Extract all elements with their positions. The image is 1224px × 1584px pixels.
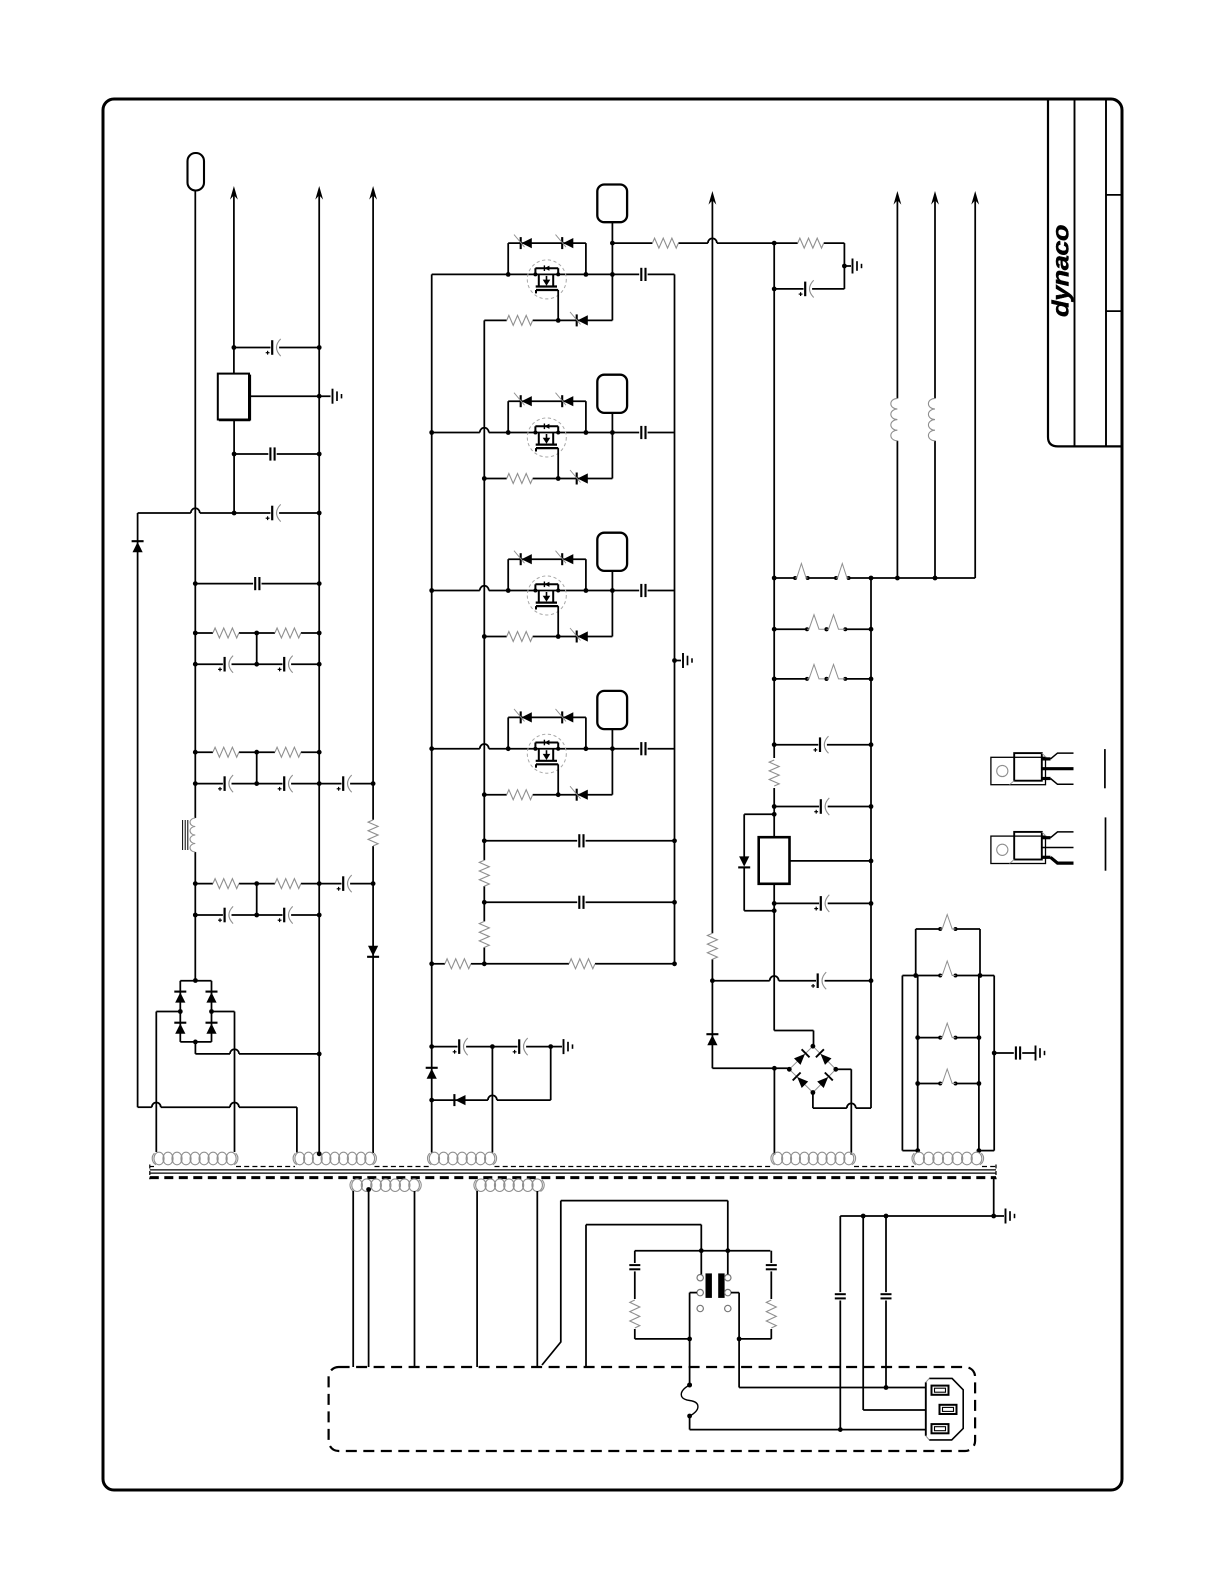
fusible resistor RF7	[938, 915, 957, 932]
node row stage 2	[429, 428, 614, 435]
wire rail E (x431.7)	[431, 274, 433, 1152]
fusible resistor RF6	[825, 664, 848, 681]
transistor Q3	[527, 576, 566, 615]
fusible resistor RF5	[805, 664, 829, 681]
resistor R1 on rail D	[368, 820, 378, 846]
zener Z3b	[556, 551, 574, 566]
fusible resistor row top	[772, 576, 975, 581]
wire BR1 bottom out	[195, 1042, 321, 1056]
winding W5	[912, 1152, 984, 1165]
node row stage 3	[429, 586, 614, 593]
resistor R17	[766, 1300, 776, 1328]
wire neutral riser	[863, 1216, 926, 1410]
capacitor C8	[254, 775, 319, 792]
resistor R15 on rail I	[769, 760, 779, 786]
diode D7 on rail E	[426, 1068, 438, 1079]
inductor L2 rail	[891, 199, 898, 578]
source row stage 3	[482, 634, 613, 639]
wire riser x550.7	[550, 1047, 552, 1101]
resistor R8 on rail F	[479, 860, 489, 886]
fuse F1	[188, 153, 205, 191]
transistor package TO-220 A	[991, 753, 1074, 785]
zener Z3a	[514, 551, 532, 566]
diode D2 on left drop	[132, 541, 144, 552]
wire Q3 can lead	[611, 571, 613, 637]
fusible resistor row 3	[772, 677, 874, 682]
heatsink bar B	[1105, 817, 1107, 870]
regulator ground row	[249, 394, 331, 399]
fusible row 4	[915, 1081, 981, 1086]
wire WA lead 1	[352, 1191, 354, 1367]
wire left drop (x137)	[137, 513, 139, 1107]
arrow output V4	[709, 191, 717, 205]
fusible resistor RF3	[805, 615, 829, 632]
capacitor C39 row	[710, 972, 873, 989]
power inlet J1 outline	[926, 1378, 963, 1440]
resistor R13 on rail H	[707, 933, 717, 959]
resistor R34 source	[507, 790, 533, 800]
capacitor C10	[319, 875, 375, 892]
protection bracket	[744, 812, 776, 913]
interlock connector P1	[690, 1251, 740, 1312]
zener Z1c source	[570, 312, 588, 327]
inlet pin 3	[932, 1424, 949, 1433]
node tap row	[610, 238, 777, 245]
diode D12	[816, 1049, 832, 1065]
resistor R10	[652, 238, 678, 248]
capacitor C24 drain	[612, 742, 674, 755]
capacitor C5	[193, 656, 257, 673]
wire rail K (x871)	[870, 578, 872, 1108]
capacitor C36 row	[772, 736, 874, 753]
ground G3	[551, 1039, 573, 1054]
capacitor C2 row	[232, 447, 322, 460]
package outline Q3 can	[597, 533, 627, 571]
arrow output V2	[315, 186, 323, 200]
capacitor C6	[254, 656, 321, 673]
wire cap branch x886	[885, 1216, 887, 1388]
wire inner right (x978.9)	[977, 976, 982, 1154]
wire rail I (x774.2)	[773, 243, 775, 1030]
wire outer left (x902.4)	[902, 976, 917, 1151]
wire AC return row	[138, 1102, 297, 1152]
regulator U1	[218, 374, 250, 421]
resistor R6	[195, 879, 256, 889]
heatsink bar A	[1104, 749, 1106, 788]
package outline Q1 can	[597, 185, 627, 223]
wire rail B (x234) upper	[233, 194, 235, 374]
wire WA tap lead	[368, 1190, 370, 1368]
resistor R5	[193, 747, 322, 757]
resistor R11	[432, 959, 485, 969]
wire Q3 source lead	[557, 606, 559, 636]
svg-text:dynaco: dynaco	[1048, 225, 1074, 317]
wire rail G (x674.5 cap rail)	[674, 274, 676, 962]
title block outline	[1048, 100, 1123, 447]
diode D4	[174, 1023, 186, 1034]
ground G1	[333, 389, 342, 404]
wire mid stub 3	[256, 884, 258, 915]
wire Q4 source lead	[557, 764, 559, 794]
wire Q1 can lead	[611, 222, 613, 243]
wire Q1 source lead	[557, 290, 559, 320]
wire BR2 right node	[836, 1069, 852, 1154]
wire interlock top row	[635, 1248, 771, 1253]
transistor Q2	[527, 418, 566, 457]
zobel right drop	[842, 243, 847, 289]
zener pair Z1a Z1b row	[508, 243, 586, 274]
wire Q4 can lead	[611, 729, 613, 795]
resistor R9 on rail F	[479, 921, 489, 947]
thermistor loop 2	[902, 973, 994, 978]
dynaco logo	[1048, 225, 1074, 317]
resistor R32 source	[507, 474, 533, 484]
wire bottom right seg	[737, 1337, 772, 1342]
wire mid stub 1	[256, 633, 258, 664]
source row stage 2	[482, 476, 613, 481]
wire WB lead 1	[476, 1191, 478, 1367]
capacitor C41 branch	[629, 1251, 640, 1339]
zener Z2a	[514, 393, 532, 408]
resistor R2	[195, 628, 256, 638]
fusible row 3	[915, 1035, 981, 1040]
capacitor C31 row	[482, 834, 677, 847]
capacitor C44	[881, 1292, 892, 1300]
fusible resistor RF9	[938, 1023, 957, 1040]
resistor R12	[429, 959, 677, 969]
wire BR1 right AC	[212, 1012, 235, 1153]
wire rail D (x373)	[372, 194, 374, 1153]
wire BR1 left AC	[156, 1012, 180, 1153]
wire drop x586	[585, 1225, 587, 1367]
wire bottom left seg	[635, 1337, 692, 1342]
capacitor C35 row	[772, 280, 845, 297]
wire earth row	[840, 1214, 996, 1219]
bridge BR2 frame	[787, 1044, 838, 1095]
diode D5	[206, 992, 218, 1003]
zener Z2c source	[570, 470, 588, 485]
resistor R3	[193, 628, 322, 638]
source row stage 1	[484, 318, 612, 323]
wire rail C (x319)	[318, 194, 320, 1154]
ground G2 on rail G	[672, 653, 692, 668]
wire Q2 source lead	[557, 448, 559, 478]
wire drop x560.8	[542, 1201, 561, 1365]
bridge BR1 frame	[178, 978, 214, 1044]
capacitor C37 row	[772, 798, 874, 815]
resistor R14	[798, 238, 824, 248]
wire winding3 right lead	[491, 1047, 493, 1153]
wire rail F (x484.3)	[483, 320, 485, 963]
zener Z4c source	[570, 786, 588, 801]
capacitor C38 row	[772, 895, 874, 912]
transistor package TO-220 B	[991, 832, 1074, 864]
wire rail A (x195)	[194, 191, 196, 981]
resistor R4	[195, 747, 256, 757]
transformer core bars	[150, 1170, 996, 1173]
zener Z1a	[514, 235, 532, 250]
wire WB lead 2	[536, 1191, 538, 1367]
capacitor C11	[193, 906, 257, 923]
arrow output V7	[971, 191, 979, 205]
arrow output V6	[931, 191, 939, 205]
arrow output V3	[369, 186, 377, 200]
diode D9 on rail H	[706, 1034, 718, 1045]
resistor R16	[630, 1300, 640, 1328]
winding W3	[428, 1152, 497, 1165]
wire to switch	[687, 1293, 692, 1388]
wire cap branch x840.3	[839, 1216, 841, 1430]
arrow output V1	[230, 186, 238, 200]
diode D8 row	[429, 1095, 550, 1102]
diode D11	[794, 1049, 810, 1065]
resistor R33 source	[507, 632, 533, 642]
diode D13	[793, 1073, 809, 1089]
diode D3	[174, 992, 186, 1003]
wire BR2 bottom node	[813, 1093, 871, 1109]
capacitor C12	[254, 906, 321, 923]
wire BR2 left node	[712, 1066, 789, 1155]
inlet pin 1	[932, 1386, 949, 1395]
diode D6	[206, 1023, 218, 1034]
fusible resistor RF10	[938, 1069, 957, 1086]
chassis dashed box	[329, 1367, 976, 1451]
capacitor C34	[490, 1038, 553, 1055]
wire Q1 drain drop	[611, 243, 613, 320]
resistor R31 source	[507, 315, 533, 325]
wire rail H (x712.4)	[711, 199, 713, 1068]
capacitor C9	[317, 775, 376, 792]
zener Z4a	[514, 709, 532, 724]
inlet pin 2	[940, 1405, 957, 1414]
page border frame	[103, 99, 1122, 1490]
wire switch to inlet	[690, 1416, 926, 1432]
capacitor C3 row	[138, 504, 322, 521]
zener pair Z4a Z4b row	[508, 717, 586, 748]
diode D10	[738, 856, 750, 867]
capacitor C42 branch	[766, 1251, 777, 1339]
zener Z2b	[556, 393, 574, 408]
source row stage 4	[482, 792, 613, 797]
regulator U2 box	[759, 837, 790, 884]
arrow output V5	[894, 191, 902, 205]
capacitor C1 row	[232, 339, 322, 356]
wire rail I to BR2	[774, 1031, 813, 1047]
fusible resistor RF1	[793, 564, 810, 581]
fusible resistor row 2	[772, 627, 874, 632]
transistor Q1	[527, 260, 566, 299]
resistor R7	[193, 879, 322, 889]
capacitor C7	[193, 775, 257, 792]
wire rail B (x234) lower	[233, 420, 235, 514]
wire mid stub 2	[256, 752, 258, 783]
inductor L3 rail	[928, 199, 935, 578]
transistor Q4	[527, 734, 566, 773]
capacitor C22 drain	[612, 426, 674, 439]
ground G5	[994, 1209, 1015, 1224]
fusible resistor RF2	[834, 564, 851, 581]
winding W1	[152, 1152, 238, 1165]
ground G4	[844, 259, 861, 274]
winding WB secondary	[474, 1179, 544, 1192]
zener pair Z2a Z2b row	[508, 401, 586, 432]
wire line row upper	[561, 1201, 728, 1251]
switch S1	[681, 1383, 698, 1419]
transformer core top dashed	[150, 1166, 996, 1168]
capacitor C40 to ground	[992, 1046, 1045, 1061]
wire WA lead 2	[414, 1191, 416, 1367]
wire U2 out	[790, 859, 874, 864]
capacitor C33	[429, 1038, 492, 1055]
wire hot row	[739, 1293, 926, 1390]
transformer core bottom dashed	[150, 1176, 996, 1179]
thermistor loop top	[916, 929, 980, 976]
winding WA secondary	[350, 1179, 421, 1192]
zener Z1b	[556, 235, 574, 250]
choke L1 with core	[183, 818, 196, 852]
capacitor C23 drain	[612, 584, 674, 597]
transformer core end brackets	[150, 1165, 996, 1180]
winding W4	[771, 1152, 856, 1165]
fusible resistor RF4	[825, 615, 848, 632]
wire inner left (x917.7)	[915, 976, 920, 1154]
node row stage 4	[429, 744, 614, 751]
capacitor C21 drain	[612, 268, 674, 281]
node row stage 1	[432, 272, 615, 277]
diode D14	[817, 1073, 833, 1089]
capacitor C43	[835, 1292, 846, 1300]
capacitor C4 row	[193, 577, 322, 590]
diode D1 on rail D	[367, 946, 379, 957]
package outline Q4 can	[597, 691, 627, 729]
zobel resistor row	[774, 242, 844, 244]
diode D8	[454, 1094, 465, 1106]
wire rail J (x975.2)	[974, 199, 976, 578]
package outline Q2 can	[597, 375, 627, 413]
wire line row lower	[586, 1225, 701, 1251]
capacitor C32 row	[482, 896, 677, 909]
wire outer right (x994.2)	[979, 976, 994, 1151]
fusible resistor RF8	[938, 961, 957, 978]
zener Z4b	[556, 709, 574, 724]
zener pair Z3a Z3b row	[508, 559, 586, 590]
wire Q2 can lead	[611, 413, 613, 479]
zener Z3c source	[570, 628, 588, 643]
winding W2	[293, 1151, 376, 1164]
wire core ground drop	[993, 1179, 995, 1217]
